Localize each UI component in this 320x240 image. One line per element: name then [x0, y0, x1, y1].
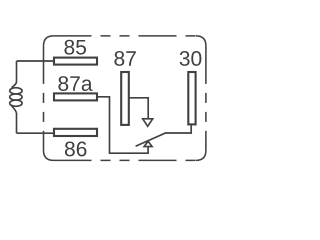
inductor coil L1 exit hook — [12, 106, 17, 113]
wire coil-top to terminal 85 — [17, 60, 55, 62]
NC contact arrow (up triangle) — [144, 141, 152, 146]
relay housing corner arc top-right — [196, 36, 206, 46]
relay housing corner arc bottom-right — [196, 150, 206, 160]
terminal bar 86 — [54, 129, 97, 136]
label 86 — [65, 142, 87, 157]
NO contact arrow (down triangle) — [143, 119, 153, 127]
wire coil upper lead — [16, 61, 18, 82]
label 30 — [180, 51, 202, 66]
wire 87a bar to NC contact — [97, 97, 148, 153]
wire coil-bottom to terminal 86 — [17, 132, 55, 134]
terminal bar 30 — [188, 72, 195, 124]
relay housing corner arc bottom-left — [44, 150, 54, 160]
terminal bar 87 — [121, 72, 129, 125]
relay housing dashed box: right edge — [205, 46, 207, 150]
switch armature from 30 — [136, 124, 192, 146]
relay housing dashed box: left edge — [43, 46, 45, 150]
inductor coil L1 entry hook — [12, 82, 17, 88]
wire 87 bar to NO contact — [129, 98, 148, 119]
wire coil lower lead — [16, 113, 18, 133]
relay housing dashed box: bottom edge — [54, 159, 196, 161]
label 85 — [64, 40, 86, 55]
terminal bar 87a — [54, 93, 97, 100]
relay housing corner arc top-left — [44, 36, 54, 46]
inductor coil L1 loops — [10, 88, 22, 94]
relay housing dashed box: top edge — [54, 35, 196, 37]
label 87 — [114, 51, 135, 66]
label 87a — [58, 76, 92, 91]
terminal bar 85 — [54, 58, 97, 65]
